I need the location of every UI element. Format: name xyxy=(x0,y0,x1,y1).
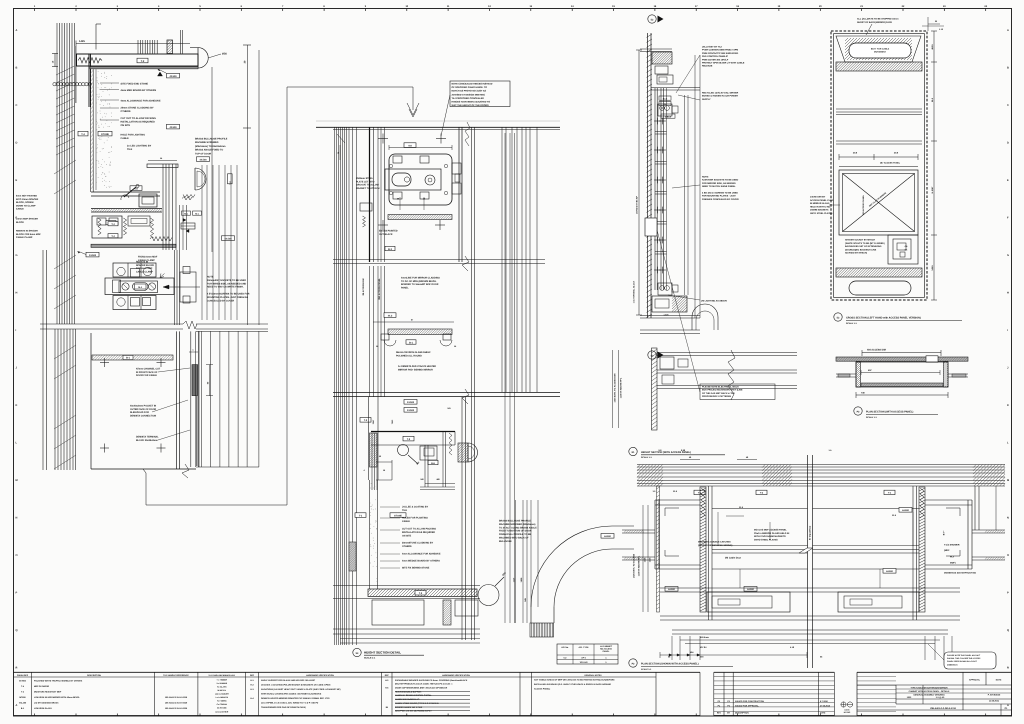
gray strip under rail xyxy=(90,67,198,69)
svg-text:Q: Q xyxy=(16,629,18,632)
svg-text:105-A04-Z-Z-SA-K-0016: 105-A04-Z-Z-SA-K-0016 xyxy=(165,696,188,699)
plan strip hatch xyxy=(652,348,658,430)
lower left sub box xyxy=(707,592,790,612)
svg-text:PROPOSED/FLY PATTERNS: PROPOSED/FLY PATTERNS xyxy=(702,395,732,398)
glass elevation lines xyxy=(195,331,197,467)
top band hatched xyxy=(836,62,922,71)
plan strip parts xyxy=(660,357,674,369)
leader arrow into plate xyxy=(166,286,200,288)
label T-4 xyxy=(78,131,88,136)
svg-text:105-A04-Z-Z-SA-K-0029: 105-A04-Z-Z-SA-K-0029 xyxy=(165,707,188,710)
stone stipple column xyxy=(369,480,371,589)
svg-text:PVSR CUSHION SEMI FINELY SPM: PVSR CUSHION SEMI FINELY SPM xyxy=(702,49,738,52)
svg-text:TO DO OF MDS (BROWN BEVEL: TO DO OF MDS (BROWN BEVEL xyxy=(401,280,437,283)
svg-text:PROTECT SPM SILVER L/T WITH CA: PROTECT SPM SILVER L/T WITH CABLE xyxy=(702,62,745,65)
svg-text:SLIDATIONS (AS INSET HEAVY DUT: SLIDATIONS (AS INSET HEAVY DUTY HINGE & … xyxy=(261,688,341,691)
svg-text:FOR MOUNTING PLATES - JUST: FOR MOUNTING PLATES - JUST xyxy=(702,195,736,198)
svg-text:JOLLEE & COATING BY: JOLLEE & COATING BY xyxy=(402,506,429,509)
svg-text:460.5: 460.5 xyxy=(931,44,934,50)
svg-text:10mmDIA x 10mmHEXAPOLUM MAGNET: 10mmDIA x 10mmHEXAPOLUM MAGNET (E-MAGNET… xyxy=(261,683,331,686)
cable slot top xyxy=(849,43,911,58)
svg-text:OTHERS: OTHERS xyxy=(121,110,131,113)
label P2 shown with access xyxy=(629,659,637,667)
svg-text:TYPE N MASTER BATHROOM MIRROR: TYPE N MASTER BATHROOM MIRROR xyxy=(910,686,948,689)
left outer wall lines xyxy=(622,529,655,531)
door bullnose profile section xyxy=(195,168,206,190)
dim small top terminal xyxy=(189,351,198,353)
svg-text:LOW IRON SILVER MIRROR WITH 45: LOW IRON SILVER MIRROR WITH 45mm BEVEL xyxy=(34,696,81,699)
notes right column d xyxy=(700,384,775,400)
svg-text:4mm WEDGE BOARD BY OTHERS: 4mm WEDGE BOARD BY OTHERS xyxy=(402,560,440,563)
svg-text:BOXED & HIDDEN IN AUX POWER: BOXED & HIDDEN IN AUX POWER xyxy=(702,95,738,98)
rail pair xyxy=(91,208,162,210)
svg-text:Lx LAMINATE: Lx LAMINATE xyxy=(216,696,229,699)
svg-text:A: A xyxy=(16,29,18,32)
svg-text:HEIGHT SECTION DETAIL: HEIGHT SECTION DETAIL xyxy=(364,651,401,655)
svg-text:(MIRROR DEMISTA PAD WIRING): (MIRROR DEMISTA PAD WIRING) xyxy=(698,544,733,547)
revision table xyxy=(714,671,835,673)
svg-text:1/SAW AIR MIT: 1/SAW AIR MIT xyxy=(810,196,826,199)
svg-text:4mmLINE FOR MIRROR CLADDING: 4mmLINE FOR MIRROR CLADDING xyxy=(401,277,440,280)
svg-text:IN FRONT FACE OF: IN FRONT FACE OF xyxy=(136,371,158,374)
counter top line xyxy=(371,431,455,433)
general notes table xyxy=(532,671,701,673)
door top bar xyxy=(147,164,178,168)
svg-text:P. ATKINSON: P. ATKINSON xyxy=(988,694,1001,697)
svg-text:44.500: 44.500 xyxy=(407,409,415,412)
right outer verticals xyxy=(974,486,976,530)
top right small dims xyxy=(928,23,940,25)
svg-text:P: P xyxy=(16,592,18,595)
svg-text:TILE: TILE xyxy=(402,509,407,512)
svg-text:G: G xyxy=(16,254,18,257)
svg-text:10mm MDF SPACER: 10mm MDF SPACER xyxy=(16,218,38,221)
svg-text:4mm ALLOWANCE FOR ADHESIVE: 4mm ALLOWANCE FOR ADHESIVE xyxy=(402,553,441,556)
plan strip lines xyxy=(657,352,797,354)
svg-text:44.500: 44.500 xyxy=(89,254,97,257)
dims below lock xyxy=(399,197,401,210)
inner partition lines xyxy=(369,128,371,263)
svg-text:Vx VENEER: Vx VENEER xyxy=(216,682,227,685)
svg-text:MACHINED INTO BACK OF: MACHINED INTO BACK OF xyxy=(499,537,529,540)
cabinet bottom lines xyxy=(640,315,700,317)
wall break line xyxy=(40,323,183,325)
svg-text:12V, AT/P999, D 3.5.5 Ohms, 34: 12V, AT/P999, D 3.5.5 Ohms, 34N. WIRED T… xyxy=(261,702,319,705)
svg-text:INSTALLING 4X3 BRASS (E.G. SHE: INSTALLING 4X3 BRASS (E.G. SHELF STUD HO… xyxy=(534,683,611,686)
svg-text:DIMENSION: DIMENSION xyxy=(947,663,958,666)
access panel box xyxy=(839,170,918,235)
svg-text:BLOCK 35x35x2mm: BLOCK 35x35x2mm xyxy=(136,439,158,442)
svg-text:44.500: 44.500 xyxy=(886,570,893,573)
svg-text:MEMBRANE (WATERPROOFING: MEMBRANE (WATERPROOFING xyxy=(944,572,976,575)
svg-text:PLAN SECTION (SHOWN WITH ACCE: PLAN SECTION (SHOWN WITH ACCESS PANEL) xyxy=(641,663,699,666)
bottom dim line xyxy=(660,654,807,656)
stamp circles xyxy=(841,702,846,707)
svg-text:150 ACCESS PANEL: 150 ACCESS PANEL xyxy=(862,194,865,215)
svg-text:1.025: 1.025 xyxy=(663,314,669,317)
cross target pairs xyxy=(654,120,661,122)
svg-text:Fx FABRIC: Fx FABRIC xyxy=(217,700,227,703)
svg-text:NEED TO MATCH SHINE FINISH.: NEED TO MATCH SHINE FINISH. xyxy=(702,185,736,188)
svg-text:SITE FIX BEHIND STONE: SITE FIX BEHIND STONE xyxy=(402,567,430,570)
svg-text:CABLE: CABLE xyxy=(16,208,24,211)
left bits xyxy=(360,203,372,211)
bottom band hatched xyxy=(836,268,922,277)
svg-text:20mmSTONE CLADDING BY: 20mmSTONE CLADDING BY xyxy=(402,542,434,545)
svg-text:LEx LEATHER: LEx LEATHER xyxy=(215,710,228,713)
svg-text:CABLE CLAMP: CABLE CLAMP xyxy=(136,270,153,273)
svg-text:SHORT OF BACK(MIRROR) FACE: SHORT OF BACK(MIRROR) FACE xyxy=(857,21,893,24)
lower band xyxy=(333,392,560,394)
door fixture tabs xyxy=(180,272,196,302)
dark stone edge pair xyxy=(88,54,90,108)
svg-text:BUTT FOR CABLE: BUTT FOR CABLE xyxy=(871,48,890,51)
screw circles xyxy=(122,283,129,290)
threaded rod 2 xyxy=(123,218,126,235)
svg-text:NOTE:: NOTE: xyxy=(702,176,709,179)
svg-text:1.5x TERMINAL BLOCK: 1.5x TERMINAL BLOCK xyxy=(633,280,636,303)
svg-text:WITH NICKEL COVERS (PNS CODES:: WITH NICKEL COVERS (PNS CODES: ADV/SNBH … xyxy=(261,692,322,695)
wall diagonal hatch strokes xyxy=(54,160,76,174)
svg-text:148.5: 148.5 xyxy=(931,265,934,271)
lock faceplate lower cells xyxy=(113,296,156,310)
dim 740 xyxy=(856,394,948,396)
lock slot xyxy=(392,173,411,186)
right small parts xyxy=(182,197,192,201)
svg-text:ANNEX STONE COVER (T/PC3 G-R.2: ANNEX STONE COVER (T/PC3 G-R.2 RACKJA xyxy=(395,702,439,705)
svg-text:PANEL: PANEL xyxy=(401,286,409,289)
shelf bar lower xyxy=(92,355,173,360)
pivot circle xyxy=(478,585,499,606)
svg-text:M METAL: M METAL xyxy=(218,689,227,692)
svg-text:MT600: MT600 xyxy=(19,696,26,699)
svg-text:(MDF: (MDF xyxy=(944,549,950,552)
svg-text:TO 25 ACT ALONG BRASS ANGLE: TO 25 ACT ALONG BRASS ANGLE xyxy=(499,526,537,529)
svg-text:TAJ FINISH REFERENCE KEY: TAJ FINISH REFERENCE KEY xyxy=(208,674,235,677)
label T-4 lock xyxy=(108,234,118,238)
svg-text:N.SHAVER SOCKETS TO BE USED: N.SHAVER SOCKETS TO BE USED xyxy=(702,179,739,182)
far right wall lines xyxy=(972,529,1005,531)
svg-text:B7 (Equal/Max): B7 (Equal/Max) xyxy=(808,526,811,541)
svg-text:1138 IN ABOVE FFL: 1138 IN ABOVE FFL xyxy=(638,555,641,576)
top wall band lines xyxy=(637,464,1005,466)
label 44.500 e xyxy=(86,252,99,257)
svg-text:1138 IN ABOVE FFL: 1138 IN ABOVE FFL xyxy=(620,377,623,398)
svg-text:HARDWARE SPECIFICATION: HARDWARE SPECIFICATION xyxy=(306,674,334,677)
threaded rod 1 xyxy=(98,218,101,235)
label T-2 xyxy=(137,58,148,63)
svg-text:PHD CONTROL PANEL/P: PHD CONTROL PANEL/P xyxy=(702,55,728,58)
svg-text:GEAPPED JAG 530 (OUTSIDE) EXPC: GEAPPED JAG 530 (OUTSIDE) EXPCY. xyxy=(395,710,432,713)
svg-text:ALL (ALL)SKTS TO BE STOPPED 10: ALL (ALL)SKTS TO BE STOPPED 10mm xyxy=(857,18,899,21)
svg-text:SCALE 1:1: SCALE 1:1 xyxy=(364,657,376,660)
svg-text:A: A xyxy=(1007,704,1009,707)
svg-text:4mm ALLOWANCE FOR ADHESIVE: 4mm ALLOWANCE FOR ADHESIVE xyxy=(121,100,161,103)
svg-text:R: R xyxy=(1007,667,1009,670)
wall small diagonal xyxy=(337,134,345,143)
svg-text:44.500: 44.500 xyxy=(747,588,754,591)
svg-text:ON SITE: ON SITE xyxy=(402,534,412,537)
svg-text:ANNEX MINI BLOCKS J.T.: ANNEX MINI BLOCKS J.T. xyxy=(395,698,420,701)
shelf lines 1 xyxy=(836,108,922,110)
lock faceplate upper cells xyxy=(113,263,156,277)
svg-text:GROOVE TO ALLOW: GROOVE TO ALLOW xyxy=(356,184,380,187)
svg-text:IN MIRROR GLASS: IN MIRROR GLASS xyxy=(810,202,830,205)
svg-text:44.500: 44.500 xyxy=(169,126,177,129)
ceiling pair lines xyxy=(180,30,182,54)
side wings xyxy=(836,373,856,375)
horizontal screw coil xyxy=(183,195,195,198)
svg-text:484 ACCESS DIM: 484 ACCESS DIM xyxy=(867,349,886,352)
svg-text:PLEASE NOTE THIS PANEL HAS NOT: PLEASE NOTE THIS PANEL HAS NOT xyxy=(947,654,981,657)
svg-text:GENERAL NOTES: GENERAL NOTES xyxy=(584,674,602,677)
right dim line xyxy=(933,31,935,300)
svg-text:FOR MIRROR SIDE, AS NEEDED: FOR MIRROR SIDE, AS NEEDED xyxy=(702,182,736,185)
bench circle xyxy=(398,445,409,456)
door edge lines lower xyxy=(174,250,176,325)
svg-text:N7mm CHANNEL CUT: N7mm CHANNEL CUT xyxy=(136,368,161,371)
right wing inner bracket xyxy=(946,508,960,516)
svg-text:VAL250: VAL250 xyxy=(19,702,27,705)
plan strip break xyxy=(728,350,735,400)
svg-text:T-2: T-2 xyxy=(141,60,145,63)
svg-text:ACCESS PANEL): ACCESS PANEL) xyxy=(534,688,551,691)
svg-text:B: B xyxy=(16,67,18,70)
wall line hatched xyxy=(647,33,649,318)
hatched shelf top xyxy=(388,215,452,220)
svg-text:HEAVEN/DOUBLE BUFFER -: HEAVEN/DOUBLE BUFFER - xyxy=(395,690,422,693)
insulation loop row xyxy=(53,83,56,86)
svg-text:44.500: 44.500 xyxy=(169,75,177,78)
svg-text:POLISHED WHITE TRUFFLE MARBLE: POLISHED WHITE TRUFFLE MARBLE BY OTHERS xyxy=(34,680,83,683)
right wing box xyxy=(967,500,969,569)
svg-text:JM LIGHTING AS ABOVE: JM LIGHTING AS ABOVE xyxy=(701,300,728,303)
svg-text:DOOR SOFTER/DRUMMA (REF. 355.2: DOOR SOFTER/DRUMMA (REF. 355.25.420 OP-B… xyxy=(395,687,448,690)
marker 53 top xyxy=(648,15,656,23)
lock plate xyxy=(385,169,441,190)
dim verticals right xyxy=(684,95,686,295)
conduit loop xyxy=(692,304,718,330)
svg-text:437.84: 437.84 xyxy=(700,646,707,649)
svg-text:PANEL SIZES SHOWN IN LAYOUT: PANEL SIZES SHOWN IN LAYOUT xyxy=(947,660,978,663)
lock assembly outer xyxy=(389,154,452,205)
label 44.2 xyxy=(384,313,396,318)
svg-text:4 EV10mm SCREWS TO BE USED FOR: 4 EV10mm SCREWS TO BE USED FOR xyxy=(207,293,250,296)
svg-text:Mirrored MDF ACCESS PANEL: Mirrored MDF ACCESS PANEL xyxy=(754,529,787,532)
lock corner pads xyxy=(393,156,402,163)
svg-text:105-A04-Z-Z-SA-K-0029: 105-A04-Z-Z-SA-K-0029 xyxy=(165,702,188,705)
svg-text:CUT OUT TO ALLOW PACKING: CUT OUT TO ALLOW PACKING xyxy=(402,528,436,531)
svg-text:TILE: TILE xyxy=(127,148,133,151)
svg-text:INTO 10mm SPACER: INTO 10mm SPACER xyxy=(16,198,39,201)
dim line above shelf xyxy=(389,147,452,149)
dim verticals right xyxy=(504,133,506,623)
left wall upper lines xyxy=(56,23,58,324)
svg-text:CABLE: CABLE xyxy=(402,520,410,523)
ceiling joist lines xyxy=(137,40,139,54)
label 44.500 c xyxy=(197,157,210,162)
svg-text:SHAVER SOCKET BY MTECH: SHAVER SOCKET BY MTECH xyxy=(845,239,875,242)
leader lines notes xyxy=(158,368,190,372)
svg-text:4 BS 18mm SCREWS TO BE USED: 4 BS 18mm SCREWS TO BE USED xyxy=(702,192,738,195)
svg-text:K: K xyxy=(16,404,18,407)
ceiling line top xyxy=(640,48,672,50)
label P2 plan section xyxy=(854,407,862,415)
svg-text:12.08.2021: 12.08.2021 xyxy=(989,700,1000,703)
base lines xyxy=(333,628,480,630)
dim verticals mid xyxy=(201,165,203,320)
svg-text:NOTE: NOTE xyxy=(207,276,214,279)
svg-text:T x TIMBER: T x TIMBER xyxy=(217,678,228,681)
door swing arcs xyxy=(531,526,612,607)
svg-text:REV: REV xyxy=(717,711,722,714)
svg-text:LIO MT OXIDISED BRASS: LIO MT OXIDISED BRASS xyxy=(34,702,59,705)
svg-text:JELLY/DET BY TAJ: JELLY/DET BY TAJ xyxy=(702,46,723,49)
svg-text:BONDER ANNEX 34C 3 PAIR: BONDER ANNEX 34C 3 PAIR xyxy=(395,706,423,709)
bottom thick bar xyxy=(91,244,176,247)
svg-text:API. TYPE: API. TYPE xyxy=(578,646,589,649)
left threaded post xyxy=(700,487,706,612)
svg-text:INSTALLATION AS REQUIRED: INSTALLATION AS REQUIRED xyxy=(402,531,435,534)
svg-text:M: M xyxy=(1007,479,1009,482)
svg-text:EDGES PAINTED: EDGES PAINTED xyxy=(379,230,398,233)
svg-text:4mm MED BOARD BY OTHERS: 4mm MED BOARD BY OTHERS xyxy=(121,89,157,92)
threaded rod 3 xyxy=(150,218,153,238)
right threaded post xyxy=(919,487,925,612)
svg-text:SHOWN. THIS CAN SEE THE ACCESS: SHOWN. THIS CAN SEE THE ACCESS xyxy=(947,657,981,660)
door leaf end hatched xyxy=(458,443,468,462)
shelf dim line xyxy=(373,321,454,323)
dim 1425 top xyxy=(76,43,190,45)
counter band xyxy=(371,444,455,446)
svg-text:MOISTURE RESISTANT MDF: MOISTURE RESISTANT MDF xyxy=(34,691,62,694)
svg-text:N: N xyxy=(16,517,18,520)
svg-text:SCALE 1:1: SCALE 1:1 xyxy=(641,668,652,671)
label boxes stack xyxy=(659,96,671,100)
dashed outer frame xyxy=(831,31,927,300)
svg-text:DOOR FOR CABLE: DOOR FOR CABLE xyxy=(136,374,157,377)
leader lines notes right xyxy=(676,55,700,93)
svg-text:CABLE CLAMP: CABLE CLAMP xyxy=(138,259,155,262)
mid break symbol xyxy=(799,548,813,553)
strikethrough rows hardware 2 xyxy=(395,691,470,693)
label 9.8 xyxy=(130,186,142,191)
door leaf hatch block xyxy=(530,623,554,637)
hatched glass shelf xyxy=(388,329,452,335)
svg-text:ONTO STEEL PLATES: ONTO STEEL PLATES xyxy=(810,212,833,215)
diagonal screw xyxy=(124,187,136,197)
left wall lines lower xyxy=(42,250,44,470)
svg-text:BLOCK: BLOCK xyxy=(16,221,24,224)
concealed hinge note xyxy=(450,81,510,107)
shelf lines 2 xyxy=(836,140,922,142)
svg-text:C: C xyxy=(16,104,18,107)
wall hatch centre xyxy=(762,465,765,468)
svg-text:TOP OF DOOR: TOP OF DOOR xyxy=(195,152,212,155)
dim line left xyxy=(638,50,640,315)
svg-text:API No.: API No. xyxy=(561,646,569,649)
svg-text:DATE: DATE xyxy=(844,709,850,712)
svg-text:44.500: 44.500 xyxy=(199,158,207,161)
svg-text:CABLE CLAMP: CABLE CLAMP xyxy=(16,236,33,239)
svg-text:150mmKEY SOCKETS TO BE USED: 150mmKEY SOCKETS TO BE USED xyxy=(207,279,246,282)
svg-text:ANY VISIBLE AREAS OF MRP OR CA: ANY VISIBLE AREAS OF MRP OR CARCASS TO B… xyxy=(534,679,615,682)
top fixture circles xyxy=(658,104,672,116)
svg-text:TAJ PROPOSED CONCEALED: TAJ PROPOSED CONCEALED xyxy=(452,97,485,100)
rail screw coil xyxy=(78,58,102,64)
svg-text:Cx CORIAN: Cx CORIAN xyxy=(217,703,228,706)
electrical back box xyxy=(645,218,657,236)
svg-text:N: N xyxy=(1007,517,1009,520)
left wall lines xyxy=(334,128,336,646)
svg-text:D: D xyxy=(1007,142,1009,145)
dim left small xyxy=(339,145,341,160)
svg-text:ISSUED FOR APPROVAL: ISSUED FOR APPROVAL xyxy=(735,704,759,707)
svg-text:(DOUBLE)(BC BACKBOX LINE: (DOUBLE)(BC BACKBOX LINE xyxy=(845,248,877,251)
svg-text:ADVISED AT DESIGN MEETING: ADVISED AT DESIGN MEETING xyxy=(452,93,486,96)
svg-text:H: H xyxy=(1007,292,1009,295)
grey board edge xyxy=(74,46,76,103)
hatched ceiling post xyxy=(167,40,173,54)
svg-text:NEED TO WAY US WHITE FINISH.: NEED TO WAY US WHITE FINISH. xyxy=(207,286,244,289)
door bullnose lower xyxy=(468,443,478,462)
svg-text:ONTO STEEL PLATES: ONTO STEEL PLATES xyxy=(754,538,778,541)
svg-text:LQx LACQUER: LQx LACQUER xyxy=(215,693,229,696)
svg-text:ON SITE: ON SITE xyxy=(121,124,131,127)
label B-1 shelf xyxy=(406,340,416,344)
stone strip xyxy=(90,69,92,192)
svg-text:FOR WIRES SIDE, AS NEEDED AND: FOR WIRES SIDE, AS NEEDED AND xyxy=(207,282,246,285)
top trapezoid hatched xyxy=(836,36,921,62)
label 53 cross section xyxy=(834,313,842,321)
svg-text:B: B xyxy=(1007,67,1009,70)
svg-text:FIXING 6mm MDF: FIXING 6mm MDF xyxy=(138,256,158,259)
svg-text:PWM COVER 300 10%/LF: PWM COVER 300 10%/LF xyxy=(702,58,729,61)
svg-text:OTHERS: OTHERS xyxy=(402,545,412,548)
svg-text:BRASS ANGLE FIXED TO: BRASS ANGLE FIXED TO xyxy=(195,149,223,152)
svg-text:MOUNTING PLATES. JUST FINISH A: MOUNTING PLATES. JUST FINISH AS xyxy=(207,296,249,299)
svg-text:POLISHED ALL ROUND: POLISHED ALL ROUND xyxy=(396,354,422,357)
label B-2 xyxy=(385,246,395,250)
svg-text:R: R xyxy=(16,667,18,670)
svg-text:BRASS BULLNOSE PROFILE: BRASS BULLNOSE PROFILE xyxy=(499,520,531,523)
left coil rods xyxy=(701,488,705,518)
post side lines xyxy=(708,486,710,620)
svg-text:44.500: 44.500 xyxy=(604,535,611,538)
label T-2 lock xyxy=(106,221,116,225)
label 9.8 lock xyxy=(404,143,416,148)
svg-text:RECYCLED 12V/2.5V DALI DRIVER: RECYCLED 12V/2.5V DALI DRIVER xyxy=(702,92,739,95)
svg-text:M.T600: M.T600 xyxy=(19,680,27,683)
main cabinet rect xyxy=(856,362,948,387)
right break zigzag top xyxy=(465,122,470,146)
svg-text:1:1 @ A0: 1:1 @ A0 xyxy=(936,696,945,699)
wall sparse diagonal hatch xyxy=(56,66,75,75)
svg-text:PLAN SECTION (WITH ACCESS PANE: PLAN SECTION (WITH ACCESS PANEL) xyxy=(866,411,914,414)
socket detail box xyxy=(888,235,918,264)
svg-text:OF THE GAS MET BACK & THE: OF THE GAS MET BACK & THE xyxy=(702,392,735,395)
central mirror line xyxy=(807,455,809,668)
svg-text:TRANSFORMER PER PAIR OF DEMIST: TRANSFORMER PER PAIR OF DEMISTA PADS) xyxy=(261,706,306,709)
svg-text:HOLES FOR PLANTING: HOLES FOR PLANTING xyxy=(402,517,428,520)
svg-text:A: A xyxy=(16,704,18,707)
marker 53 bottom xyxy=(648,351,656,359)
title block xyxy=(857,671,1012,673)
svg-text:BLOCK FOR 6mm MDF: BLOCK FOR 6mm MDF xyxy=(16,233,41,236)
labels T-1 row xyxy=(694,490,705,494)
lock knob xyxy=(425,175,435,185)
svg-text:LOW IRON GLASS: LOW IRON GLASS xyxy=(34,707,52,710)
